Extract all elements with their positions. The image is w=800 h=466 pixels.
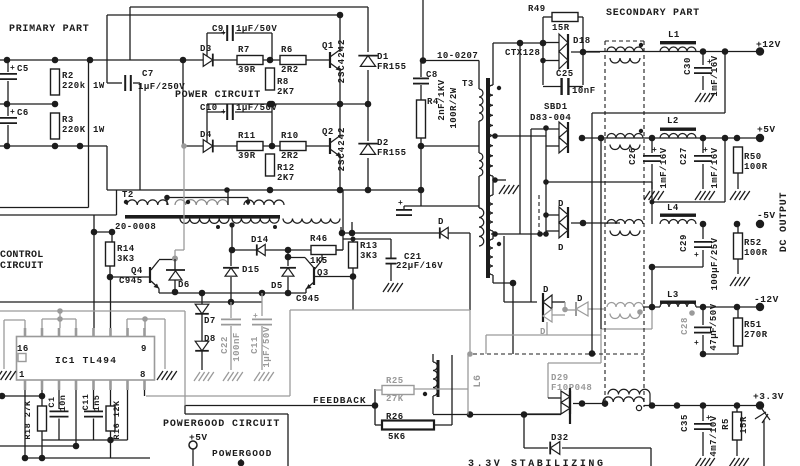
svg-text:R7: R7 bbox=[238, 45, 250, 55]
svg-text:16: 16 bbox=[17, 344, 29, 354]
svg-text:1K5: 1K5 bbox=[310, 256, 328, 266]
svg-text:R4: R4 bbox=[427, 97, 439, 107]
svg-text:DC OUTPUT: DC OUTPUT bbox=[779, 192, 790, 252]
svg-text:22μF/16V: 22μF/16V bbox=[396, 261, 443, 271]
svg-text:IC1 TL494: IC1 TL494 bbox=[55, 355, 117, 366]
svg-text:2SC4242: 2SC4242 bbox=[337, 39, 347, 84]
svg-text:Q2: Q2 bbox=[322, 127, 334, 137]
svg-text:CTX128: CTX128 bbox=[505, 48, 540, 58]
svg-text:+: + bbox=[10, 64, 15, 73]
svg-text:FEEDBACK: FEEDBACK bbox=[313, 395, 367, 406]
svg-text:D29: D29 bbox=[551, 373, 569, 383]
svg-text:27K: 27K bbox=[386, 394, 404, 404]
svg-text:R2: R2 bbox=[62, 71, 74, 81]
svg-text:270R: 270R bbox=[744, 330, 768, 340]
svg-text:R46: R46 bbox=[310, 234, 328, 244]
svg-text:D5: D5 bbox=[271, 281, 283, 291]
svg-text:1mF/16V: 1mF/16V bbox=[659, 147, 669, 188]
svg-text:+: + bbox=[694, 251, 699, 260]
svg-text:5K6: 5K6 bbox=[388, 432, 406, 442]
svg-text:1W: 1W bbox=[93, 81, 105, 91]
svg-text:4m7/10V: 4m7/10V bbox=[709, 415, 719, 456]
svg-text:R5: R5 bbox=[721, 418, 731, 430]
svg-text:10-0207: 10-0207 bbox=[437, 51, 478, 61]
svg-text:D4: D4 bbox=[200, 130, 212, 140]
svg-text:10n: 10n bbox=[58, 395, 68, 412]
svg-text:SBD1: SBD1 bbox=[544, 102, 568, 112]
svg-text:D: D bbox=[558, 243, 564, 253]
svg-text:+3.3V: +3.3V bbox=[753, 391, 784, 402]
svg-text:2R2: 2R2 bbox=[281, 65, 299, 75]
svg-text:CIRCUIT: CIRCUIT bbox=[0, 261, 43, 272]
svg-text:C10: C10 bbox=[200, 103, 218, 113]
svg-text:L6: L6 bbox=[473, 374, 484, 387]
svg-text:39R: 39R bbox=[238, 65, 256, 75]
svg-text:D: D bbox=[577, 294, 583, 304]
svg-text:47μF/50V: 47μF/50V bbox=[709, 303, 719, 350]
svg-text:C945: C945 bbox=[296, 294, 320, 304]
svg-text:+12V: +12V bbox=[756, 39, 781, 50]
svg-text:+: + bbox=[398, 199, 403, 208]
svg-text:C26: C26 bbox=[628, 147, 638, 165]
svg-text:D: D bbox=[438, 217, 444, 227]
svg-text:1μF/50V: 1μF/50V bbox=[262, 326, 272, 367]
svg-text:R49: R49 bbox=[528, 4, 546, 14]
svg-text:R52: R52 bbox=[744, 238, 762, 248]
svg-text:D6: D6 bbox=[178, 280, 190, 290]
svg-text:8: 8 bbox=[140, 370, 146, 380]
svg-text:-5V: -5V bbox=[757, 210, 776, 221]
svg-text:+: + bbox=[703, 146, 708, 155]
svg-text:PRIMARY PART: PRIMARY PART bbox=[9, 24, 89, 35]
svg-text:+: + bbox=[221, 108, 226, 117]
svg-text:R6: R6 bbox=[281, 45, 293, 55]
svg-text:2K7: 2K7 bbox=[277, 173, 295, 183]
svg-text:CONTROL: CONTROL bbox=[0, 250, 43, 261]
svg-text:L2: L2 bbox=[667, 116, 679, 126]
svg-text:D3: D3 bbox=[200, 44, 212, 54]
svg-text:100R: 100R bbox=[744, 162, 768, 172]
svg-text:100nF: 100nF bbox=[232, 332, 242, 362]
svg-text:3K3: 3K3 bbox=[360, 251, 378, 261]
svg-text:1n5: 1n5 bbox=[92, 395, 102, 412]
svg-text:3.3V STABILIZING: 3.3V STABILIZING bbox=[468, 459, 606, 466]
svg-text:SECONDARY PART: SECONDARY PART bbox=[606, 8, 700, 19]
svg-text:15R: 15R bbox=[739, 416, 749, 434]
svg-text:D8: D8 bbox=[204, 334, 216, 344]
svg-text:C29: C29 bbox=[679, 234, 689, 252]
svg-text:C7: C7 bbox=[142, 69, 154, 79]
svg-text:R16 12K: R16 12K bbox=[112, 400, 122, 440]
svg-text:D2: D2 bbox=[377, 138, 389, 148]
svg-text:+: + bbox=[10, 108, 15, 117]
svg-text:+: + bbox=[652, 146, 657, 155]
svg-text:39R: 39R bbox=[238, 151, 256, 161]
svg-text:D18: D18 bbox=[573, 36, 591, 46]
svg-text:POWERGOOD: POWERGOOD bbox=[212, 448, 272, 459]
svg-text:D83-004: D83-004 bbox=[530, 113, 571, 123]
svg-text:D15: D15 bbox=[242, 265, 260, 275]
svg-text:L4: L4 bbox=[667, 203, 679, 213]
svg-text:POWERGOOD CIRCUIT: POWERGOOD CIRCUIT bbox=[163, 419, 280, 430]
svg-text:R8: R8 bbox=[277, 77, 289, 87]
svg-text:L3: L3 bbox=[667, 290, 679, 300]
svg-text:FR155: FR155 bbox=[377, 62, 407, 72]
svg-text:15R: 15R bbox=[552, 23, 570, 33]
svg-text:1μF/50V: 1μF/50V bbox=[236, 24, 277, 34]
svg-text:R12: R12 bbox=[277, 163, 295, 173]
svg-text:L1: L1 bbox=[668, 30, 680, 40]
svg-text:R25: R25 bbox=[386, 376, 404, 386]
svg-text:C11: C11 bbox=[250, 336, 260, 354]
svg-text:100R: 100R bbox=[744, 248, 768, 258]
svg-text:R11: R11 bbox=[238, 131, 256, 141]
svg-text:C22: C22 bbox=[220, 336, 230, 354]
svg-text:C28: C28 bbox=[680, 317, 690, 335]
svg-text:C25: C25 bbox=[556, 69, 574, 79]
svg-text:100μF/25V: 100μF/25V bbox=[710, 237, 720, 290]
svg-text:9: 9 bbox=[141, 344, 147, 354]
svg-text:R50: R50 bbox=[744, 152, 762, 162]
svg-text:T2: T2 bbox=[122, 190, 134, 200]
svg-text:Q1: Q1 bbox=[322, 41, 334, 51]
svg-text:R10: R10 bbox=[281, 131, 299, 141]
svg-text:220K: 220K bbox=[62, 125, 86, 135]
svg-text:Q4: Q4 bbox=[131, 266, 143, 276]
svg-text:1mF/16V: 1mF/16V bbox=[710, 55, 720, 96]
svg-text:2K7: 2K7 bbox=[277, 87, 295, 97]
svg-text:FR155: FR155 bbox=[377, 148, 407, 158]
svg-text:R14: R14 bbox=[117, 244, 135, 254]
svg-text:C8: C8 bbox=[426, 70, 438, 80]
svg-text:2SC4242: 2SC4242 bbox=[337, 127, 347, 172]
svg-text:220k: 220k bbox=[62, 81, 86, 91]
svg-text:C945: C945 bbox=[119, 276, 143, 286]
svg-text:+: + bbox=[694, 339, 699, 348]
svg-text:R18 27K: R18 27K bbox=[23, 400, 33, 440]
svg-text:100R/2W: 100R/2W bbox=[449, 87, 459, 128]
svg-text:D14: D14 bbox=[251, 235, 269, 245]
svg-text:20-0008: 20-0008 bbox=[115, 222, 156, 232]
svg-text:-12V: -12V bbox=[754, 294, 779, 305]
svg-text:C35: C35 bbox=[680, 414, 690, 432]
svg-text:+5V: +5V bbox=[757, 124, 776, 135]
svg-text:C1: C1 bbox=[47, 396, 57, 407]
svg-text:F10P048: F10P048 bbox=[551, 383, 592, 393]
svg-text:C5: C5 bbox=[17, 64, 29, 74]
svg-text:R3: R3 bbox=[62, 115, 74, 125]
svg-text:T3: T3 bbox=[462, 79, 474, 89]
svg-text:+: + bbox=[221, 29, 226, 38]
svg-text:D7: D7 bbox=[204, 316, 216, 326]
svg-text:3K3: 3K3 bbox=[117, 254, 135, 264]
svg-text:R13: R13 bbox=[360, 241, 378, 251]
svg-text:D1: D1 bbox=[377, 52, 389, 62]
svg-text:POWER CIRCUIT: POWER CIRCUIT bbox=[175, 90, 261, 101]
svg-text:1W: 1W bbox=[93, 125, 105, 135]
svg-text:C27: C27 bbox=[679, 147, 689, 165]
svg-text:1: 1 bbox=[19, 370, 25, 380]
svg-text:C6: C6 bbox=[17, 108, 29, 118]
svg-text:C30: C30 bbox=[683, 57, 693, 75]
svg-text:R51: R51 bbox=[744, 320, 762, 330]
svg-text:10nF: 10nF bbox=[572, 86, 596, 96]
svg-text:1mF/16V: 1mF/16V bbox=[710, 147, 720, 188]
svg-text:1μF/250V: 1μF/250V bbox=[138, 82, 185, 92]
svg-text:2R2: 2R2 bbox=[281, 151, 299, 161]
svg-text:C11: C11 bbox=[81, 394, 91, 411]
